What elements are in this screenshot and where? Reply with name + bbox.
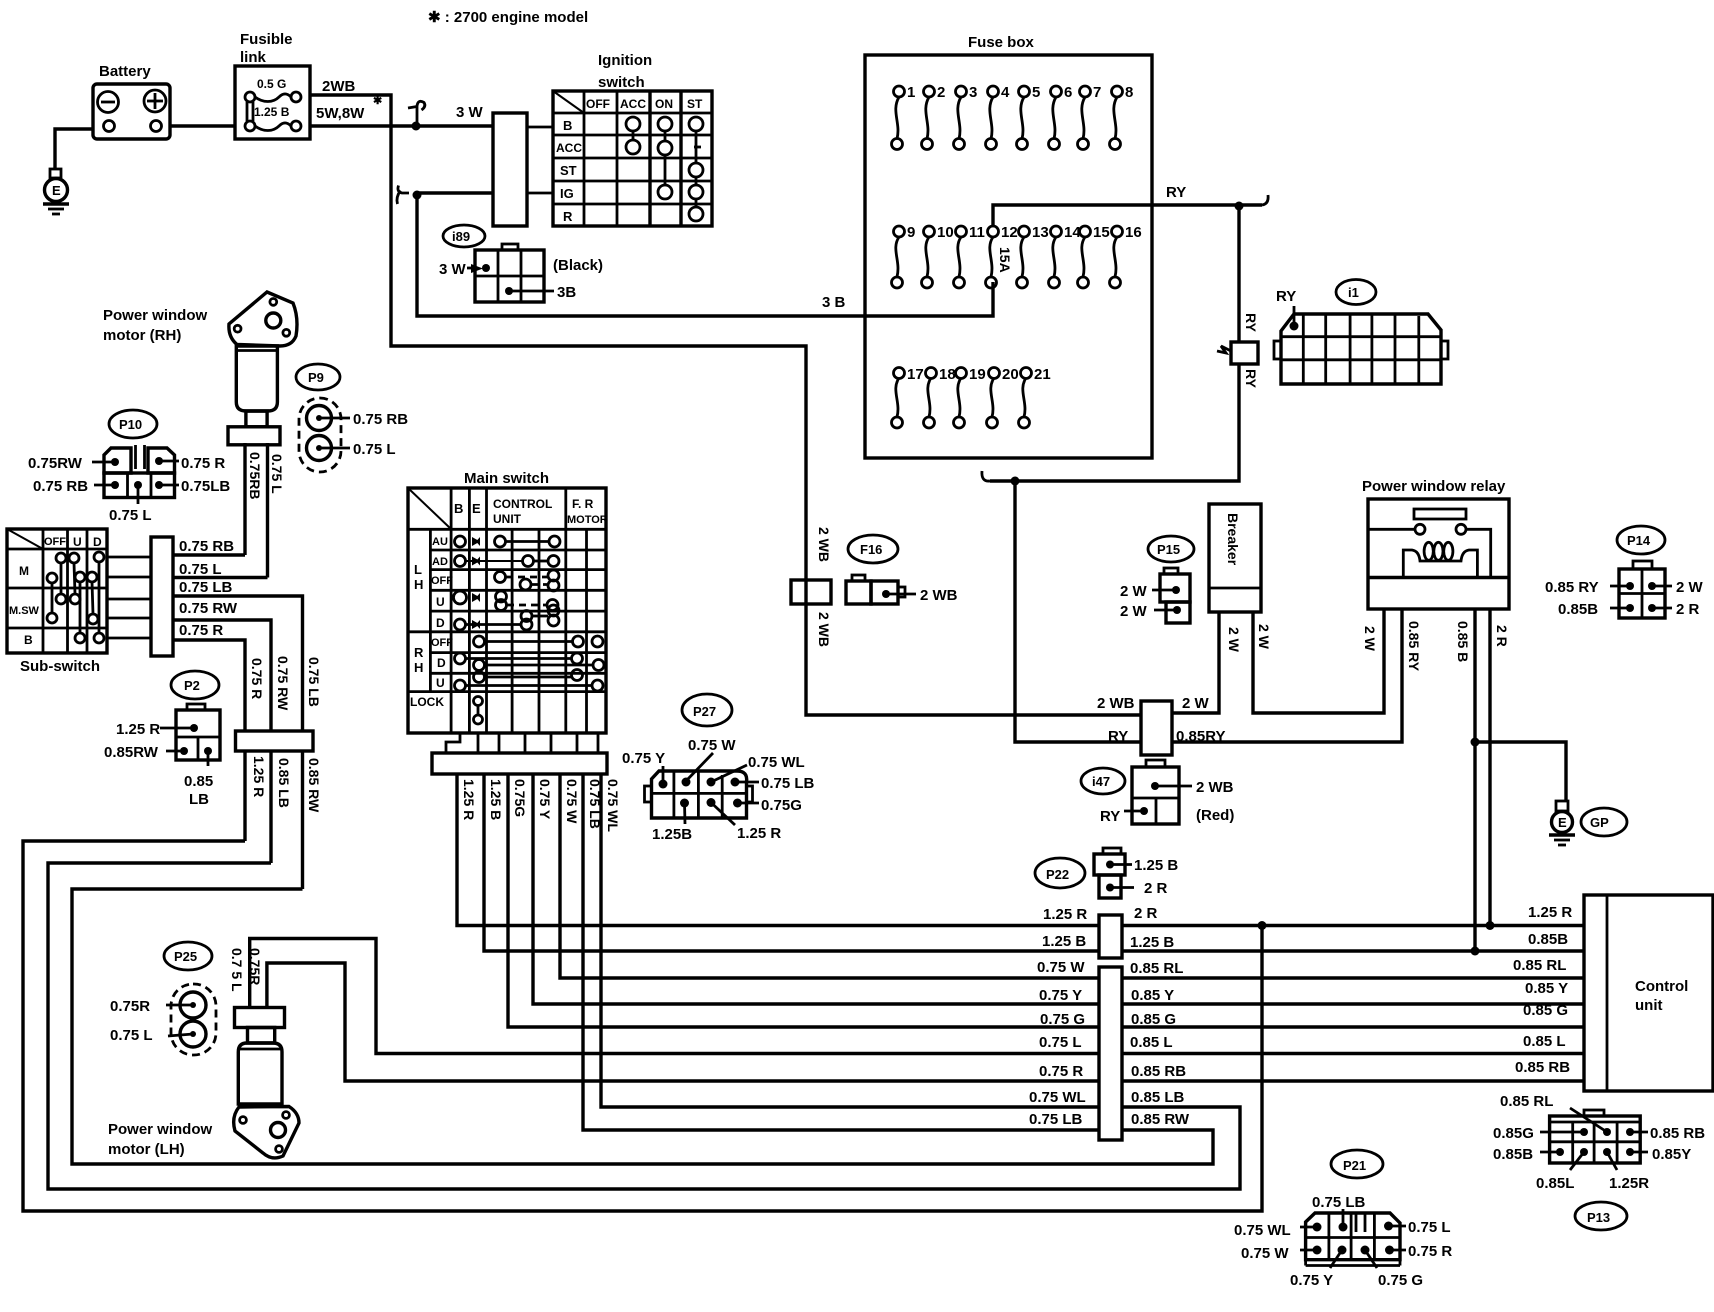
svg-text:E: E	[1558, 815, 1567, 830]
ignition switch connector bar	[493, 113, 527, 226]
svg-text:Power window relay: Power window relay	[1362, 478, 1506, 495]
svg-text:0.75 L: 0.75 L	[1039, 1034, 1082, 1051]
wire row3 P22 to control unit	[1122, 976, 1584, 979]
wire 0.75L motor LH to row6	[250, 939, 1099, 1054]
svg-text:5: 5	[1032, 84, 1040, 101]
svg-text:8: 8	[1125, 84, 1133, 101]
ignition switch contacts ST column	[689, 117, 703, 221]
svg-text:0.75 R: 0.75 R	[179, 622, 223, 639]
label 0.75RW rotated above P2	[275, 656, 291, 711]
wire 0.75W main switch to row3	[560, 774, 1099, 978]
label (Red)	[1196, 807, 1234, 824]
label 0.85G row5 right	[1131, 1011, 1176, 1028]
svg-text:0.75 L: 0.75 L	[1408, 1219, 1451, 1236]
fuse 18	[924, 366, 956, 428]
P27 pin 0.75Y	[622, 750, 668, 789]
wire 0.75R bar to P2	[173, 640, 245, 731]
main switch contacts RH OFF row	[474, 636, 604, 647]
svg-text:0.75 W: 0.75 W	[688, 737, 736, 754]
fusible link FL	[235, 31, 310, 139]
svg-text:ON: ON	[655, 97, 673, 111]
label 1.25R row1 left	[1043, 906, 1087, 923]
svg-text:L: L	[414, 562, 422, 577]
svg-text:0.75 Y: 0.75 Y	[1039, 987, 1082, 1004]
wire battery positive to fusible link	[170, 124, 235, 127]
svg-text:RY: RY	[1243, 369, 1259, 389]
svg-text:1.25 R: 1.25 R	[1528, 904, 1572, 921]
svg-text:0.85 RB: 0.85 RB	[1131, 1063, 1186, 1080]
svg-text:0.85 RL: 0.85 RL	[1513, 957, 1566, 974]
wire RY to junction	[990, 364, 1239, 481]
fuse 6	[1049, 84, 1073, 150]
label 0.75R rotated motor LH	[247, 948, 263, 985]
label 3B on fuse wire	[822, 294, 846, 311]
label 0.85RL row3 far right	[1513, 957, 1566, 974]
svg-text:Fusible: Fusible	[240, 31, 293, 48]
svg-text:2 WB: 2 WB	[920, 587, 958, 604]
junction RY to relay branch	[1011, 477, 1020, 486]
control unit	[1584, 895, 1713, 1091]
wire 1.25R main switch to row1	[457, 774, 1099, 926]
svg-text:✱: ✱	[373, 95, 382, 107]
svg-text:AD: AD	[432, 556, 448, 568]
label 0.75LB	[179, 579, 233, 596]
P13 pin 0.85L	[1536, 1148, 1588, 1192]
label 0.75L	[179, 561, 222, 578]
label 0.75WL row8 left	[1029, 1089, 1086, 1106]
main switch table	[408, 470, 608, 733]
label 0.85RB row7 right	[1131, 1063, 1186, 1080]
svg-text:0.75 L: 0.75 L	[269, 454, 285, 494]
svg-text:RY: RY	[1100, 808, 1120, 825]
main switch contacts RH D row	[455, 653, 605, 671]
svg-text:1.25 B: 1.25 B	[1130, 934, 1174, 951]
wire 0.85RW P2 down	[301, 751, 304, 889]
svg-text:unit: unit	[1635, 997, 1663, 1014]
svg-text:0.75 W: 0.75 W	[1241, 1245, 1289, 1262]
svg-text:5W,8W: 5W,8W	[316, 105, 365, 122]
svg-text:0.85 G: 0.85 G	[1523, 1002, 1568, 1019]
wire row2 P22 to control unit	[1122, 949, 1584, 952]
fuse 5	[1017, 84, 1041, 150]
breaker	[1209, 504, 1261, 612]
P2 pin 0.85LB	[184, 747, 213, 808]
svg-text:3 W: 3 W	[439, 261, 467, 278]
svg-text:0.75 Y: 0.75 Y	[537, 779, 553, 820]
svg-text:LOCK: LOCK	[410, 695, 444, 709]
P27 pin 0.75WL	[707, 754, 805, 787]
sub-switch table	[7, 529, 107, 675]
svg-text:OFF: OFF	[586, 97, 610, 111]
svg-text:11: 11	[969, 224, 985, 241]
wire 0.75L bar to motor RH	[173, 576, 268, 579]
svg-text:IG: IG	[560, 186, 574, 201]
label 0.75W row3 left	[1037, 959, 1085, 976]
label 2R rotated	[1494, 625, 1510, 647]
wire 3B: ignition bar to fuse 12	[417, 193, 993, 316]
label 1.25B row2 right	[1130, 934, 1174, 951]
label 0.75LB rotated	[587, 779, 603, 829]
label 0.75RB rotated	[247, 452, 263, 499]
wire sub-switch M.SW to bar	[107, 598, 151, 601]
svg-text:F16: F16	[860, 542, 882, 557]
svg-text:U: U	[436, 676, 445, 690]
main switch contacts LH U row	[454, 591, 559, 611]
svg-text:0.75 G: 0.75 G	[1378, 1272, 1423, 1289]
sub-switch connector bar	[151, 537, 173, 656]
svg-text:P10: P10	[119, 417, 142, 432]
svg-text:0.85G: 0.85G	[1493, 1125, 1534, 1142]
svg-text:P22: P22	[1046, 867, 1069, 882]
P10 pin 0.75RB	[33, 478, 119, 495]
label 0.85Y row4 right	[1131, 987, 1174, 1004]
svg-text:Main switch: Main switch	[464, 470, 549, 487]
svg-text:0.75 RB: 0.75 RB	[179, 538, 234, 555]
svg-text:(Black): (Black)	[553, 257, 603, 274]
connector P21	[1306, 1213, 1400, 1266]
label 2WB rotated upper	[816, 527, 832, 562]
connector i47 designator	[1081, 768, 1125, 794]
wire 5W,8W: fusible link to ignition switch	[310, 124, 493, 127]
svg-text:4: 4	[1001, 84, 1010, 101]
svg-text:i89: i89	[452, 229, 470, 244]
svg-text:0.75RB: 0.75RB	[247, 452, 263, 499]
main switch connector bar	[432, 753, 607, 774]
svg-text:3 B: 3 B	[822, 294, 846, 311]
connector i1 designator	[1336, 280, 1376, 305]
wire 0.75R motor LH to row7	[267, 963, 1099, 1081]
svg-text:0.75 W: 0.75 W	[564, 779, 580, 824]
relay pin 0.85B	[1473, 609, 1476, 951]
svg-text:0.75 LB: 0.75 LB	[306, 657, 322, 707]
label (Black)	[553, 257, 603, 274]
wire row1 P22 to control unit	[1122, 924, 1584, 927]
connector P10	[104, 445, 175, 498]
svg-text:3B: 3B	[557, 284, 576, 301]
label 2WB	[322, 78, 356, 95]
ignition switch table	[553, 52, 712, 226]
label 0.85L row6 far right	[1523, 1033, 1566, 1050]
wire row7 P22 to control unit	[1122, 1079, 1584, 1082]
svg-text:0.75 WL: 0.75 WL	[748, 754, 805, 771]
svg-text:0.85 Y: 0.85 Y	[1131, 987, 1174, 1004]
wire sub-switch B to bar	[107, 637, 151, 640]
connector P22 designator	[1035, 858, 1085, 888]
svg-text:AU: AU	[432, 536, 448, 548]
junction 3B	[413, 191, 422, 200]
label 0.85LB rotated	[276, 758, 292, 808]
svg-text:0.85B: 0.85B	[1558, 601, 1598, 618]
svg-text:M.SW: M.SW	[9, 605, 40, 617]
svg-text:B: B	[24, 633, 33, 647]
connector P10 designator	[109, 410, 157, 438]
svg-text:0.75 R: 0.75 R	[181, 455, 225, 472]
label 0.85RL row3 right	[1130, 960, 1183, 977]
relay pin 2R	[1488, 609, 1491, 926]
svg-text:B: B	[563, 118, 572, 133]
label 0.75Y row4 left	[1039, 987, 1082, 1004]
svg-text:1.25 R: 1.25 R	[251, 756, 267, 797]
connector F16 designator	[848, 535, 898, 563]
svg-text:0.85 B: 0.85 B	[1455, 621, 1471, 662]
connector P27 designator	[682, 694, 732, 726]
connector P2	[176, 704, 220, 760]
svg-text:0.75 Y: 0.75 Y	[622, 750, 665, 767]
ground E (battery)	[43, 169, 69, 214]
P27 pin 1.25R	[707, 798, 782, 842]
fuse 8	[1110, 84, 1134, 150]
fuse 9	[892, 224, 916, 288]
svg-text:2 R: 2 R	[1676, 601, 1700, 618]
connector P25 designator	[164, 942, 212, 970]
svg-text:ST: ST	[687, 97, 703, 111]
power window motor (RH)	[103, 292, 297, 445]
svg-text:0.85 L: 0.85 L	[1523, 1033, 1566, 1050]
ground designator GP	[1581, 808, 1627, 836]
svg-text:17: 17	[907, 366, 924, 383]
svg-text:i47: i47	[1092, 774, 1110, 789]
svg-text:0.85RW: 0.85RW	[104, 744, 159, 761]
label 0.85B row2 far right	[1528, 931, 1568, 948]
svg-text:0.75 L: 0.75 L	[179, 561, 222, 578]
connector P13	[1550, 1110, 1641, 1163]
svg-text:9: 9	[907, 224, 915, 241]
svg-text:E: E	[472, 501, 481, 516]
P13 pin 0.85RB	[1626, 1125, 1705, 1142]
svg-text:1.25 B: 1.25 B	[1134, 857, 1178, 874]
svg-text:U: U	[73, 535, 82, 549]
wire battery negative to ground	[55, 129, 93, 169]
fuse 14	[1049, 224, 1082, 288]
svg-text:2: 2	[937, 84, 945, 101]
label 2WB rotated lower	[816, 612, 832, 647]
connector on 2WB wire	[791, 580, 831, 604]
P27 pin 0.75G	[733, 797, 802, 814]
label 2R row1 right	[1134, 905, 1158, 922]
svg-text:21: 21	[1034, 366, 1051, 383]
wire 0.75L motor RH down	[266, 443, 269, 578]
power window relay	[1362, 478, 1509, 609]
svg-text:Battery: Battery	[99, 63, 151, 80]
junction RY	[1235, 202, 1244, 211]
label 1.25B rotated	[488, 779, 504, 820]
wire row9 P22 right then down	[72, 889, 1213, 1164]
connector P25	[110, 984, 216, 1055]
svg-text:0.85Y: 0.85Y	[1652, 1146, 1691, 1163]
label 0.75G row5 left	[1040, 1011, 1085, 1028]
label 0.75LB row9 left	[1029, 1111, 1083, 1128]
hook on RY wire end	[982, 471, 990, 481]
svg-text:0.75 G: 0.75 G	[1040, 1011, 1085, 1028]
P10 pin 0.75LB	[155, 478, 230, 495]
svg-text:0.75 LB: 0.75 LB	[1029, 1111, 1083, 1128]
svg-text:2 W: 2 W	[1362, 626, 1378, 652]
svg-text:P2: P2	[184, 678, 200, 693]
svg-text:GP: GP	[1590, 815, 1609, 830]
wire sub-switch M.SW2 to bar	[107, 617, 151, 620]
svg-text:RY: RY	[1276, 288, 1296, 305]
svg-text:UNIT: UNIT	[493, 512, 522, 526]
P21 pin 0.75W	[1241, 1245, 1322, 1262]
label 0.85B rotated	[1455, 621, 1471, 662]
svg-text:RY: RY	[1243, 313, 1259, 333]
connector bar P2	[236, 731, 314, 751]
wire bar to ignition table row IG	[527, 192, 553, 195]
connector P15	[1120, 568, 1190, 623]
label 0.75L rotated	[269, 454, 285, 494]
main switch contacts LH AD row	[455, 556, 560, 567]
svg-text:2 WB: 2 WB	[816, 612, 832, 647]
fuse 7	[1078, 84, 1102, 150]
wire 0.75RW bar to P2	[173, 620, 271, 731]
P21 pin 0.75WL	[1234, 1222, 1322, 1239]
label 0.75RB	[179, 538, 234, 555]
P27 pin 0.75W	[682, 737, 737, 787]
svg-text:3 W: 3 W	[456, 104, 484, 121]
svg-text:U: U	[436, 595, 445, 609]
svg-text:2 WB: 2 WB	[1097, 695, 1135, 712]
svg-text:0.85 LB: 0.85 LB	[276, 758, 292, 808]
label 0.75Y rotated	[537, 779, 553, 820]
fuse 21	[1019, 366, 1051, 428]
svg-text:0.85 RB: 0.85 RB	[1650, 1125, 1705, 1142]
power window motor (LH)	[108, 1008, 299, 1159]
connector P9 designator	[296, 364, 340, 390]
P2 pin 1.25R	[116, 721, 198, 738]
svg-text:2 WB: 2 WB	[1196, 779, 1234, 796]
label 0.75R	[179, 622, 223, 639]
svg-text:0.75 R: 0.75 R	[1408, 1243, 1452, 1260]
label 0.85RW rotated	[306, 758, 322, 813]
svg-text:OFF: OFF	[44, 536, 66, 548]
svg-text:2 W: 2 W	[1676, 579, 1704, 596]
wire RY down to connector symbol	[1237, 206, 1240, 342]
P13 pin 1.25R	[1603, 1148, 1649, 1192]
svg-text:MOTOR: MOTOR	[567, 514, 608, 526]
i1 pin RY	[1290, 306, 1299, 331]
connector P22 pin 1.25B	[1094, 848, 1178, 875]
svg-text:P25: P25	[174, 949, 197, 964]
label 1.25R rotated	[461, 779, 477, 820]
wire row5 P22 to control unit	[1122, 1025, 1584, 1028]
label 0.85G row5 far right	[1523, 1002, 1568, 1019]
svg-text:7: 7	[1093, 84, 1101, 101]
junction 3W	[412, 122, 421, 131]
svg-text:0.75 L: 0.75 L	[109, 507, 152, 524]
svg-text:0.85B: 0.85B	[1528, 931, 1568, 948]
svg-text:OFF: OFF	[431, 637, 453, 649]
fuse 19	[954, 366, 986, 428]
wire 0.85RY connector to relay	[1172, 609, 1402, 742]
svg-text:P27: P27	[693, 704, 716, 719]
svg-text:ST: ST	[560, 163, 577, 178]
label 0.75L row6 left	[1039, 1034, 1082, 1051]
wire 0.75WL main switch to row8	[601, 774, 1099, 1107]
fuse 10	[922, 224, 954, 288]
svg-text:0.75 WL: 0.75 WL	[605, 779, 621, 832]
junction 0.85B to ground	[1471, 738, 1480, 747]
svg-text:Sub-switch: Sub-switch	[20, 658, 100, 675]
svg-text:0.85 RW: 0.85 RW	[1131, 1111, 1190, 1128]
wire 2W connector to breaker	[1172, 612, 1219, 713]
svg-text:0.85 RL: 0.85 RL	[1500, 1093, 1553, 1110]
svg-text:15: 15	[1093, 224, 1110, 241]
svg-text:0.75 RW: 0.75 RW	[179, 600, 238, 617]
fuse 13	[1017, 224, 1049, 288]
svg-text:motor (LH): motor (LH)	[108, 1141, 185, 1158]
P21 pin 0.75Y	[1290, 1246, 1347, 1290]
svg-text:0.75 W: 0.75 W	[1037, 959, 1085, 976]
P2 pin 0.85RW	[104, 744, 188, 761]
svg-text:0.75 RB: 0.75 RB	[33, 478, 88, 495]
P13 pin 0.85B	[1493, 1146, 1564, 1163]
connector symbol on RY wire	[1217, 313, 1259, 389]
svg-text:2 R: 2 R	[1134, 905, 1158, 922]
battery B1	[93, 63, 170, 139]
label RY at i1	[1276, 288, 1296, 305]
connector P21 designator	[1331, 1150, 1383, 1178]
i89 pin 3W	[439, 261, 490, 278]
connector i1	[1274, 314, 1448, 384]
main switch contacts LH OFF row	[495, 570, 560, 591]
svg-text:13: 13	[1032, 224, 1049, 241]
wire 0.75RB motor RH down	[243, 443, 246, 555]
wire 0.75G main switch to row5	[508, 774, 1099, 1027]
svg-text:E: E	[52, 183, 61, 198]
svg-text:0.85 RW: 0.85 RW	[306, 758, 322, 813]
ignition switch contacts ACC column	[626, 117, 640, 154]
svg-text:1.25 B: 1.25 B	[254, 105, 290, 119]
junction row2 0.85B	[1471, 947, 1480, 956]
connector P2 designator	[171, 671, 219, 699]
wire 0.75RB bar to motor RH	[173, 553, 245, 556]
label 1.25R row1 far right	[1528, 904, 1572, 921]
svg-text:2 W: 2 W	[1226, 627, 1242, 653]
wire RY from fuse box	[1152, 184, 1268, 205]
svg-text:Breaker: Breaker	[1225, 513, 1241, 566]
fuse 3	[954, 84, 978, 150]
label 0.85RB row7 far right	[1515, 1059, 1570, 1076]
junction row1 2R	[1486, 921, 1495, 930]
svg-text:1.25 B: 1.25 B	[488, 779, 504, 820]
P13 pin 0.85G	[1493, 1125, 1588, 1142]
connector F16	[846, 575, 958, 604]
wire row8 P22 right then down	[48, 863, 1240, 1189]
fuse 12 15A	[986, 224, 1018, 288]
wire 1.25R P2 down	[243, 751, 246, 841]
svg-text:0.75 R: 0.75 R	[1039, 1063, 1083, 1080]
connector hook on 3W wire	[408, 107, 417, 109]
P13 pin 0.85RL	[1500, 1093, 1611, 1136]
P21 pin 0.75G	[1361, 1246, 1424, 1290]
wire sub-switch M2 to bar	[107, 576, 151, 579]
svg-text:switch: switch	[598, 74, 645, 91]
svg-text:(Red): (Red)	[1196, 807, 1234, 824]
svg-text:0.75 Y: 0.75 Y	[1290, 1272, 1333, 1289]
svg-text:10: 10	[937, 224, 954, 241]
P10 pin 0.75RW	[28, 455, 119, 472]
svg-text:20: 20	[1002, 366, 1019, 383]
svg-text:0.85 G: 0.85 G	[1131, 1011, 1176, 1028]
svg-text:RY: RY	[1108, 728, 1128, 745]
svg-text:F. R: F. R	[572, 497, 594, 511]
wire 0.75LB main switch to row9	[583, 774, 1099, 1130]
svg-text:Control: Control	[1635, 978, 1688, 995]
svg-text:LB: LB	[189, 791, 209, 808]
svg-text:0.75G: 0.75G	[761, 797, 802, 814]
svg-text:H: H	[414, 660, 423, 675]
fuse box	[865, 34, 1152, 458]
